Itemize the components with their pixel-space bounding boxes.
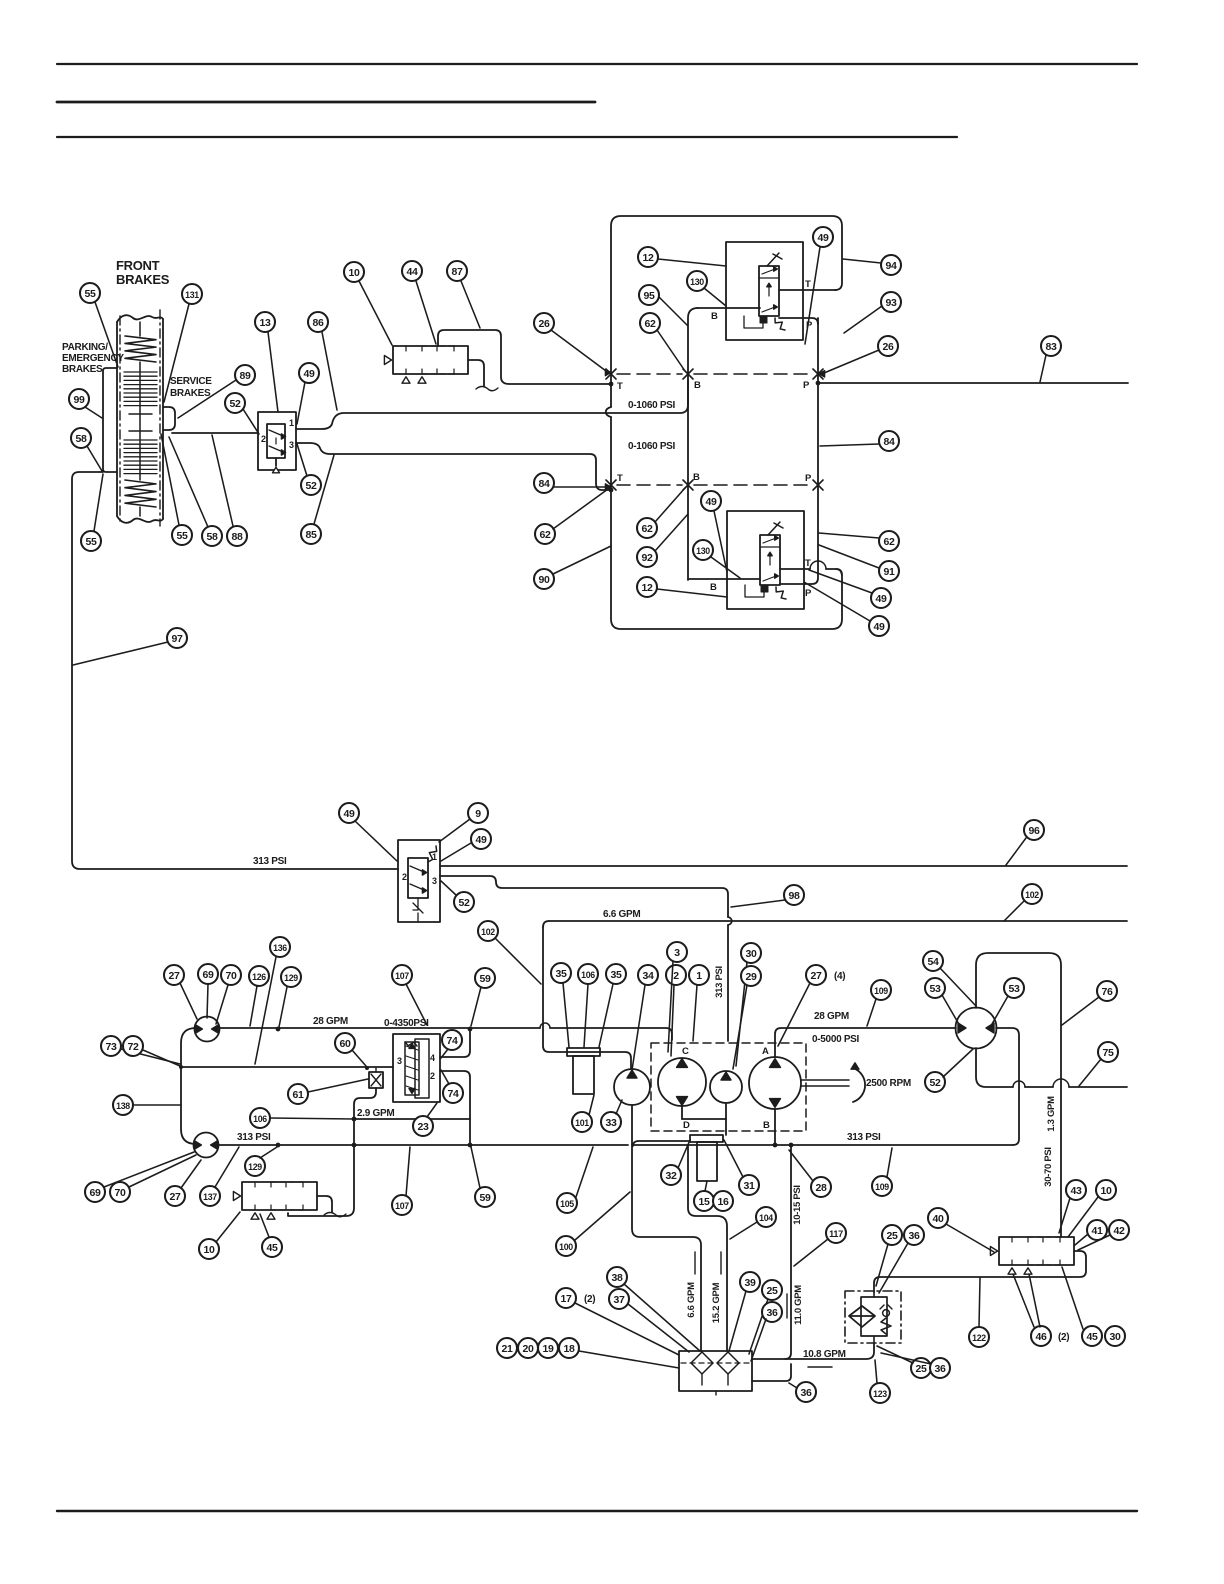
svg-text:131: 131	[185, 290, 200, 301]
svg-text:2500 RPM: 2500 RPM	[866, 1078, 911, 1089]
svg-text:BRAKES: BRAKES	[116, 272, 170, 287]
svg-text:B: B	[763, 1120, 770, 1131]
svg-text:38: 38	[611, 1272, 623, 1284]
svg-text:100: 100	[559, 1242, 573, 1253]
svg-text:49: 49	[475, 834, 487, 846]
svg-text:3: 3	[289, 440, 294, 450]
svg-text:129: 129	[248, 1162, 262, 1173]
svg-text:3: 3	[432, 876, 437, 886]
svg-text:45: 45	[266, 1242, 278, 1254]
svg-text:84: 84	[538, 478, 550, 490]
svg-text:61: 61	[292, 1089, 304, 1101]
svg-text:12: 12	[641, 582, 653, 594]
svg-text:PARKING/: PARKING/	[62, 342, 108, 353]
svg-text:102: 102	[1025, 890, 1039, 901]
svg-text:P: P	[803, 380, 810, 391]
svg-text:87: 87	[451, 266, 463, 278]
svg-text:36: 36	[766, 1307, 778, 1319]
svg-text:54: 54	[927, 956, 939, 968]
svg-text:T: T	[805, 279, 811, 290]
svg-text:52: 52	[929, 1077, 941, 1089]
svg-text:62: 62	[641, 523, 653, 535]
svg-text:106: 106	[581, 970, 595, 981]
svg-text:1: 1	[432, 852, 437, 862]
svg-text:2: 2	[261, 434, 266, 444]
svg-text:1: 1	[289, 418, 294, 428]
svg-text:75: 75	[1102, 1047, 1114, 1059]
svg-text:95: 95	[643, 290, 655, 302]
svg-text:62: 62	[644, 318, 656, 330]
svg-text:101: 101	[575, 1118, 590, 1129]
svg-text:26: 26	[538, 318, 550, 330]
svg-text:3: 3	[674, 947, 680, 959]
svg-text:45: 45	[1086, 1331, 1098, 1343]
svg-text:31: 31	[743, 1180, 755, 1192]
svg-text:130: 130	[690, 277, 704, 288]
svg-text:10: 10	[1100, 1185, 1112, 1197]
svg-text:0-5000 PSI: 0-5000 PSI	[812, 1034, 860, 1045]
svg-text:98: 98	[788, 890, 800, 902]
svg-text:46: 46	[1035, 1331, 1047, 1343]
svg-text:58: 58	[206, 531, 218, 543]
svg-text:D: D	[683, 1120, 690, 1131]
svg-text:123: 123	[873, 1389, 887, 1400]
svg-text:73: 73	[105, 1041, 117, 1053]
svg-text:70: 70	[225, 970, 237, 982]
svg-text:0-1060 PSI: 0-1060 PSI	[628, 400, 676, 411]
svg-text:4: 4	[430, 1053, 435, 1063]
svg-text:92: 92	[641, 552, 653, 564]
svg-text:29: 29	[745, 971, 757, 983]
svg-text:313 PSI: 313 PSI	[714, 966, 725, 998]
svg-text:52: 52	[229, 398, 241, 410]
svg-text:2: 2	[430, 1071, 435, 1081]
svg-text:C: C	[682, 1046, 689, 1057]
svg-text:6.6 GPM: 6.6 GPM	[686, 1282, 697, 1318]
svg-text:44: 44	[406, 266, 418, 278]
svg-text:B: B	[711, 311, 718, 322]
svg-text:(2): (2)	[584, 1294, 595, 1305]
svg-text:16: 16	[717, 1196, 729, 1208]
svg-text:107: 107	[395, 971, 409, 982]
svg-text:2.9 GPM: 2.9 GPM	[357, 1108, 394, 1119]
svg-text:T: T	[617, 473, 623, 484]
svg-text:32: 32	[665, 1170, 677, 1182]
svg-text:105: 105	[560, 1199, 575, 1210]
svg-text:106: 106	[253, 1114, 267, 1125]
svg-text:117: 117	[829, 1229, 843, 1240]
svg-text:89: 89	[239, 370, 251, 382]
svg-text:35: 35	[555, 968, 567, 980]
svg-text:A: A	[762, 1046, 769, 1057]
svg-text:33: 33	[605, 1117, 617, 1129]
svg-text:BRAKES: BRAKES	[62, 364, 103, 375]
svg-text:107: 107	[395, 1201, 409, 1212]
svg-text:59: 59	[479, 973, 491, 985]
svg-text:34: 34	[642, 970, 654, 982]
svg-text:96: 96	[1028, 825, 1040, 837]
svg-text:129: 129	[284, 973, 298, 984]
svg-text:74: 74	[446, 1035, 458, 1047]
svg-text:62: 62	[539, 529, 551, 541]
svg-text:T: T	[617, 381, 623, 392]
svg-text:55: 55	[84, 288, 96, 300]
svg-text:62: 62	[883, 536, 895, 548]
svg-text:15.2 GPM: 15.2 GPM	[711, 1282, 722, 1323]
svg-text:84: 84	[883, 436, 895, 448]
svg-text:69: 69	[202, 969, 214, 981]
svg-text:49: 49	[873, 621, 885, 633]
svg-text:13: 13	[259, 317, 271, 329]
svg-text:27: 27	[169, 1191, 181, 1203]
svg-text:58: 58	[75, 433, 87, 445]
svg-text:25: 25	[886, 1230, 898, 1242]
svg-text:30-70 PSI: 30-70 PSI	[1043, 1147, 1054, 1187]
svg-text:53: 53	[1008, 983, 1020, 995]
svg-text:109: 109	[874, 986, 888, 997]
svg-text:313 PSI: 313 PSI	[237, 1132, 271, 1143]
svg-text:91: 91	[883, 566, 895, 578]
svg-text:B: B	[693, 472, 700, 483]
svg-text:BRAKES: BRAKES	[170, 388, 211, 399]
svg-text:2: 2	[402, 872, 407, 882]
svg-text:69: 69	[89, 1187, 101, 1199]
svg-text:28: 28	[815, 1182, 827, 1194]
svg-text:49: 49	[817, 232, 829, 244]
svg-text:35: 35	[610, 969, 622, 981]
svg-text:25: 25	[766, 1285, 778, 1297]
svg-text:3: 3	[397, 1056, 402, 1066]
svg-text:72: 72	[127, 1041, 139, 1053]
svg-text:90: 90	[538, 574, 550, 586]
svg-text:28 GPM: 28 GPM	[313, 1016, 348, 1027]
svg-text:30: 30	[1109, 1331, 1121, 1343]
svg-text:122: 122	[972, 1333, 986, 1344]
svg-text:49: 49	[705, 496, 717, 508]
svg-text:FRONT: FRONT	[116, 258, 160, 273]
svg-text:10-15 PSI: 10-15 PSI	[792, 1185, 803, 1225]
svg-text:53: 53	[929, 983, 941, 995]
svg-text:12: 12	[642, 252, 654, 264]
svg-text:20: 20	[522, 1343, 534, 1355]
svg-text:41: 41	[1091, 1225, 1103, 1237]
svg-text:27: 27	[168, 970, 180, 982]
svg-text:88: 88	[231, 531, 243, 543]
svg-text:28 GPM: 28 GPM	[814, 1011, 849, 1022]
svg-text:104: 104	[759, 1213, 774, 1224]
svg-text:42: 42	[1113, 1225, 1125, 1237]
svg-text:97: 97	[171, 633, 183, 645]
svg-text:0-1060 PSI: 0-1060 PSI	[628, 441, 676, 452]
svg-text:(2): (2)	[1058, 1332, 1069, 1343]
svg-text:59: 59	[479, 1192, 491, 1204]
svg-text:49: 49	[303, 368, 315, 380]
svg-text:18: 18	[563, 1343, 575, 1355]
svg-text:43: 43	[1070, 1185, 1082, 1197]
svg-text:P: P	[805, 473, 812, 484]
svg-text:93: 93	[885, 297, 897, 309]
svg-text:15: 15	[698, 1196, 710, 1208]
svg-text:102: 102	[481, 927, 495, 938]
svg-text:137: 137	[203, 1192, 217, 1203]
svg-text:23: 23	[417, 1121, 429, 1133]
svg-text:B: B	[694, 380, 701, 391]
svg-text:36: 36	[934, 1363, 946, 1375]
svg-text:1: 1	[696, 970, 702, 982]
svg-text:SERVICE: SERVICE	[170, 376, 212, 387]
svg-text:74: 74	[447, 1088, 459, 1100]
svg-text:130: 130	[696, 546, 710, 557]
svg-text:36: 36	[908, 1230, 920, 1242]
svg-text:138: 138	[116, 1101, 130, 1112]
svg-text:60: 60	[339, 1038, 351, 1050]
svg-text:11.0 GPM: 11.0 GPM	[793, 1285, 804, 1325]
svg-text:39: 39	[744, 1277, 756, 1289]
svg-text:52: 52	[305, 480, 317, 492]
svg-text:85: 85	[305, 529, 317, 541]
svg-text:10: 10	[348, 267, 360, 279]
svg-text:26: 26	[882, 341, 894, 353]
svg-text:B: B	[710, 582, 717, 593]
svg-text:2: 2	[673, 970, 679, 982]
svg-text:T: T	[805, 558, 811, 569]
svg-text:25: 25	[915, 1363, 927, 1375]
svg-text:40: 40	[932, 1213, 944, 1225]
svg-text:10: 10	[203, 1244, 215, 1256]
svg-text:(4): (4)	[834, 971, 845, 982]
svg-text:109: 109	[875, 1182, 889, 1193]
svg-text:36: 36	[800, 1387, 812, 1399]
svg-text:55: 55	[176, 530, 188, 542]
svg-text:313 PSI: 313 PSI	[847, 1132, 881, 1143]
svg-text:21: 21	[501, 1343, 513, 1355]
svg-text:126: 126	[252, 972, 266, 983]
svg-text:19: 19	[542, 1343, 554, 1355]
svg-text:10.8 GPM: 10.8 GPM	[803, 1349, 846, 1360]
svg-text:94: 94	[885, 260, 897, 272]
svg-text:83: 83	[1045, 341, 1057, 353]
svg-text:49: 49	[875, 593, 887, 605]
svg-text:17: 17	[560, 1293, 572, 1305]
svg-text:76: 76	[1101, 986, 1113, 998]
svg-text:313 PSI: 313 PSI	[253, 856, 287, 867]
svg-text:6.6 GPM: 6.6 GPM	[603, 909, 640, 920]
svg-text:52: 52	[458, 897, 470, 909]
svg-text:86: 86	[312, 317, 324, 329]
svg-text:1.3 GPM: 1.3 GPM	[1046, 1096, 1057, 1132]
svg-text:9: 9	[475, 808, 481, 820]
svg-text:136: 136	[273, 943, 287, 954]
svg-text:30: 30	[745, 948, 757, 960]
svg-text:55: 55	[85, 536, 97, 548]
svg-text:99: 99	[73, 394, 85, 406]
svg-text:27: 27	[810, 970, 822, 982]
svg-text:70: 70	[114, 1187, 126, 1199]
svg-text:49: 49	[343, 808, 355, 820]
svg-text:P: P	[805, 588, 812, 599]
svg-text:0-4350PSI: 0-4350PSI	[384, 1018, 429, 1029]
svg-text:37: 37	[613, 1294, 625, 1306]
